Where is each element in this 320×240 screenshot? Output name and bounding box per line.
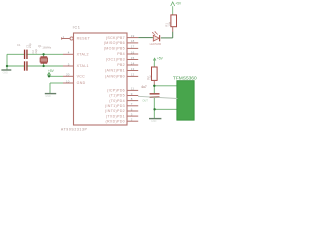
svg-text:17: 17 xyxy=(131,45,135,49)
svg-text:2: 2 xyxy=(131,118,133,122)
svg-text:4u7: 4u7 xyxy=(141,85,147,89)
svg-text:XTAL1: XTAL1 xyxy=(77,64,89,68)
svg-text:15: 15 xyxy=(131,56,135,60)
svg-text:(T1)PD5: (T1)PD5 xyxy=(109,94,125,98)
svg-text:GND: GND xyxy=(3,72,9,75)
svg-text:TFMS5360: TFMS5360 xyxy=(173,76,197,82)
svg-text:3: 3 xyxy=(131,112,133,116)
svg-text:+5V: +5V xyxy=(175,1,182,5)
svg-text:6: 6 xyxy=(131,107,133,111)
svg-text:+5V: +5V xyxy=(157,56,164,60)
svg-text:GND: GND xyxy=(45,95,51,98)
svg-text:11: 11 xyxy=(131,87,135,91)
svg-text:16MHz: 16MHz xyxy=(42,45,52,49)
svg-text:100: 100 xyxy=(149,75,153,80)
svg-text:GND: GND xyxy=(77,81,86,85)
svg-text:20: 20 xyxy=(66,73,70,77)
svg-text:(T0)PD4: (T0)PD4 xyxy=(109,99,125,103)
svg-text:(AIN1)PB1: (AIN1)PB1 xyxy=(105,69,125,73)
svg-text:(MISO)PB6: (MISO)PB6 xyxy=(104,41,125,45)
svg-text:IC1: IC1 xyxy=(73,25,81,29)
svg-text:(RXD)PD0: (RXD)PD0 xyxy=(106,119,125,123)
svg-text:7: 7 xyxy=(131,102,133,106)
svg-text:22p: 22p xyxy=(28,43,32,48)
svg-text:18: 18 xyxy=(131,39,135,43)
svg-text:(ICP)PD6: (ICP)PD6 xyxy=(107,89,125,93)
svg-text:PB4: PB4 xyxy=(117,52,125,56)
svg-text:10: 10 xyxy=(66,79,70,83)
svg-text:LED5MM: LED5MM xyxy=(150,42,162,46)
svg-text:+5V: +5V xyxy=(48,69,55,73)
svg-text:4: 4 xyxy=(68,51,70,55)
svg-text:OUT: OUT xyxy=(142,98,148,102)
svg-text:(INT1)PD3: (INT1)PD3 xyxy=(105,104,125,108)
svg-text:8: 8 xyxy=(131,97,133,101)
svg-text:1: 1 xyxy=(63,35,65,39)
svg-text:PB2: PB2 xyxy=(117,63,125,67)
svg-text:16: 16 xyxy=(131,50,135,54)
svg-text:RESET: RESET xyxy=(77,37,91,41)
svg-text:XTAL2: XTAL2 xyxy=(77,53,89,57)
svg-text:12: 12 xyxy=(131,73,135,77)
svg-text:AT90S2313P: AT90S2313P xyxy=(61,128,88,132)
svg-text:(OC1)PB3: (OC1)PB3 xyxy=(106,58,125,62)
svg-text:(MOSI)PB5: (MOSI)PB5 xyxy=(104,47,125,51)
svg-text:(SCK)PB7: (SCK)PB7 xyxy=(106,36,125,40)
svg-text:GND: GND xyxy=(151,120,157,123)
svg-text:19: 19 xyxy=(131,34,135,38)
svg-text:(AIN0)PB0: (AIN0)PB0 xyxy=(105,75,125,79)
svg-text:10k: 10k xyxy=(167,21,171,26)
svg-text:5: 5 xyxy=(68,62,70,66)
svg-text:(TXD)PD1: (TXD)PD1 xyxy=(106,114,125,118)
svg-text:13: 13 xyxy=(131,67,135,71)
svg-text:VCC: VCC xyxy=(77,75,86,79)
svg-text:14: 14 xyxy=(131,61,135,65)
svg-text:(INT0)PD2: (INT0)PD2 xyxy=(105,109,125,113)
svg-text:C1: C1 xyxy=(17,43,21,47)
svg-text:22p: 22p xyxy=(34,48,38,53)
svg-text:9: 9 xyxy=(131,92,133,96)
